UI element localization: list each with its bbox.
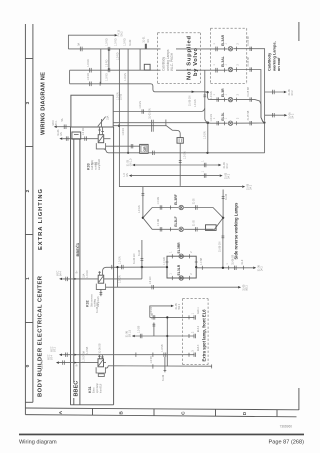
ticks near EL3R EL3L pins: [217, 97, 252, 125]
svg-text:Extra: Extra: [93, 387, 96, 393]
svg-text:1.0 RD: 1.0 RD: [105, 38, 108, 46]
row2 branch down to node A: [205, 70, 208, 122]
svg-text:1.0 GN: 1.0 GN: [164, 257, 166, 265]
K32 coil slash: [99, 276, 103, 282]
EL6 pin ticks at box entry: [194, 315, 196, 357]
wire B to EL6 pin2: [126, 325, 195, 338]
label BBEC: [71, 382, 79, 398]
wire node A to EL3L: [208, 122, 228, 124]
ticks on drop: [142, 193, 145, 195]
tick OR output: [153, 151, 155, 155]
svg-text:1: 1: [226, 64, 228, 66]
svg-text:Extra spot lamp, front EL6: Extra spot lamp, front EL6: [201, 309, 206, 362]
arrow left stub: [54, 125, 57, 127]
ticks wire D: [153, 364, 212, 368]
svg-text:1: 1: [170, 251, 172, 253]
footer rule: [19, 434, 304, 436]
svg-text:31-05: 31-05: [194, 198, 196, 205]
connector box on EL3LF return: [206, 225, 217, 231]
svg-text:1: 1: [191, 312, 194, 314]
fuse bar inside: [74, 134, 79, 136]
svg-text:K33: K33: [86, 163, 90, 170]
tick stub down: [164, 370, 167, 372]
svg-text:2: 2: [238, 93, 240, 95]
svg-text:1.0 SB: 1.0 SB: [86, 346, 89, 354]
svg-text:D: D: [242, 411, 248, 415]
svg-text:1: 1: [25, 277, 31, 280]
vertical link in EL6 feed: [166, 317, 168, 366]
wire branch down to K32 output: [141, 267, 143, 279]
OR gate box: [140, 144, 148, 153]
arrow mid EL3R feed: [192, 91, 195, 93]
svg-text:1.0 GN: 1.0 GN: [194, 99, 197, 107]
svg-text:D4 2: D4 2: [291, 90, 294, 96]
wire branch up connector: [141, 240, 143, 267]
svg-text:1: 1: [201, 160, 204, 162]
ring pin labels: [164, 251, 203, 275]
wire E K31 feed: [47, 354, 98, 365]
wire A to EL6 pin1: [150, 316, 195, 318]
svg-text:1.0 GN: 1.0 GN: [210, 91, 213, 99]
labels lamp pins lower: [214, 87, 250, 121]
svg-text:31-06: 31-06: [162, 374, 165, 381]
junction dots on vertical link: [166, 316, 168, 318]
wire into K33 left (coil feed): [62, 138, 98, 140]
wire K32 output to ring riser: [104, 278, 142, 280]
svg-text:D4 2: D4 2: [226, 163, 229, 169]
svg-text:31-04: 31-04: [138, 249, 141, 256]
svg-text:EXTRA LIGHTING: EXTRA LIGHTING: [38, 189, 44, 250]
svg-text:working: working: [94, 298, 97, 307]
wire left L joining row2-row3: [69, 70, 71, 84]
switch contact inside unit: [98, 117, 106, 127]
frame right edge fragments: [298, 22, 300, 41]
wire node A down to node B: [207, 123, 209, 153]
wire EL3AL return to right bus: [233, 70, 264, 123]
svg-text:1.0 GN: 1.0 GN: [150, 307, 153, 315]
svg-text:0: 0: [25, 364, 31, 367]
svg-text:31-05 SB: 31-05 SB: [248, 87, 250, 97]
svg-text:W2 2: W2 2: [246, 285, 249, 291]
svg-text:1.0 SB: 1.0 SB: [150, 356, 153, 364]
wire split to EL3RF row: [143, 208, 178, 218]
labels on row1 row2 wires: [78, 36, 150, 100]
ticks wire A: [153, 315, 189, 319]
svg-text:1: 1: [226, 43, 228, 45]
lamp EL3LR: [179, 276, 183, 280]
svg-text:31-03: 31-03: [120, 93, 123, 100]
relay K32: [98, 275, 104, 283]
svg-text:1.0 GN: 1.0 GN: [83, 354, 86, 362]
tick coil stub: [100, 293, 103, 295]
wire EL3R return: [233, 100, 264, 123]
ticks on side reverse rows: [160, 205, 197, 231]
svg-text:5A: 5A: [61, 118, 64, 121]
svg-text:working Lamps: working Lamps: [166, 49, 170, 71]
wire row3 jog down to EL3R feed line: [151, 84, 206, 92]
svg-text:2: 2: [238, 43, 240, 45]
svg-text:31-05 GN: 31-05 GN: [189, 95, 192, 106]
svg-text:Not Supplied: Not Supplied: [186, 36, 192, 80]
svg-text:W2 2: W2 2: [178, 303, 181, 309]
svg-text:1.0 RD: 1.0 RD: [123, 38, 126, 46]
text Not Supplied by Volvo: [186, 36, 199, 80]
ticks on merge-down: [222, 236, 225, 238]
svg-text:31-05: 31-05: [225, 193, 228, 200]
wire row2 (feed bus to EL3AL): [70, 69, 228, 71]
svg-text:BBEC: BBEC: [73, 381, 79, 397]
stub to 31-06 reference lower: [265, 112, 295, 119]
svg-text:1.0 GN: 1.0 GN: [118, 256, 121, 264]
svg-text:31-05: 31-05: [194, 220, 196, 227]
junction dot OR input: [127, 152, 129, 154]
svg-text:15A: 15A: [107, 115, 110, 120]
svg-text:B7 2: B7 2: [54, 346, 57, 352]
ticks on K33 out: [131, 144, 133, 148]
stub up from wire B connector: [153, 323, 155, 337]
strip pin arrow K32 feed: [75, 278, 77, 280]
connector ticks on row1: [80, 44, 224, 51]
svg-text:WLC- PKGH: WLC- PKGH: [170, 52, 174, 71]
svg-text:C: C: [181, 411, 187, 415]
junction dot rear feed: [141, 266, 143, 268]
wire row1 (feed bus to EL3AR): [68, 48, 227, 50]
svg-text:Side reverse: Side reverse: [90, 293, 93, 307]
svg-text:1: 1: [214, 64, 216, 66]
wire ring return to reference arrow: [196, 254, 263, 271]
K32 aux contact output: [106, 266, 249, 291]
svg-text:B4 1: B4 1: [55, 120, 58, 126]
svg-text:1.0 RD: 1.0 RD: [115, 38, 118, 46]
svg-text:31-05 SB: 31-05 SB: [248, 110, 250, 120]
svg-text:31-06: 31-06: [151, 313, 154, 320]
svg-text:31-06 SB: 31-06 SB: [248, 57, 250, 67]
connector box on row2: [144, 64, 150, 70]
frame coordinate row (bottom, rotated landscape left ruler): [25, 408, 299, 417]
svg-text:WIRING DIAGRAM NE: WIRING DIAGRAM NE: [40, 72, 46, 135]
stub from unit to EL3R branch: [113, 108, 205, 111]
wire K33 coil down to OR lower input: [104, 149, 140, 153]
svg-text:1: 1: [214, 117, 216, 119]
K32 top stubs: [99, 271, 101, 275]
pin labels roof lamps: [214, 43, 240, 66]
svg-text:EL3L: EL3L: [221, 112, 225, 120]
svg-text:1.0 GN: 1.0 GN: [158, 218, 160, 226]
svg-text:1.0 RD: 1.0 RD: [86, 270, 89, 278]
arrow K32 feed: [59, 278, 62, 280]
svg-text:B+: B+: [76, 363, 79, 367]
K33 bracket: [96, 143, 105, 149]
fuse block small box: [72, 132, 81, 139]
svg-text:B+: B+: [76, 270, 79, 274]
ticks stub111: [142, 109, 144, 113]
wire row3 (feed bus to node A): [70, 83, 152, 85]
svg-text:2: 2: [191, 273, 193, 275]
lamp EL3L: [228, 121, 232, 125]
wire right bus down to OR output corner: [264, 123, 266, 153]
svg-text:2: 2: [238, 117, 240, 119]
svg-text:1.0 RD: 1.0 RD: [87, 59, 90, 67]
svg-text:SB 1.5: SB 1.5: [129, 329, 132, 337]
ticks merge-up: [222, 197, 225, 199]
svg-text:Lamp ELS: Lamp ELS: [98, 296, 100, 307]
svg-text:D4 2: D4 2: [249, 184, 252, 190]
wire D from K31 output: [104, 362, 107, 364]
svg-text:1.0 GN: 1.0 GN: [183, 151, 186, 159]
svg-text:OR: OR: [143, 146, 147, 152]
svg-text:K32: K32: [86, 300, 90, 307]
svg-text:Cab/Body: Cab/Body: [92, 159, 94, 170]
svg-text:1.0 RD: 1.0 RD: [117, 52, 120, 60]
svg-text:31-06 SB: 31-06 SB: [232, 254, 235, 264]
svg-text:EL3R: EL3R: [221, 88, 225, 97]
svg-text:1.0 RD: 1.0 RD: [122, 128, 125, 136]
svg-text:1.0 GN: 1.0 GN: [210, 114, 213, 122]
svg-text:31-06 SB: 31-06 SB: [99, 343, 102, 353]
svg-text:EA 2: EA 2: [120, 31, 123, 37]
rear lamp ring: [167, 256, 196, 278]
lamp EL3R: [228, 97, 232, 101]
svg-text:Lamp ELR: Lamp ELR: [99, 159, 101, 170]
svg-text:1: 1: [214, 93, 216, 95]
svg-text:2: 2: [25, 189, 31, 192]
wire OR output to right riser: [148, 152, 265, 154]
wire vertical x119.4 row1 to bus corner, down to lower bus: [119, 49, 242, 187]
junction dot side-reverse right merge: [206, 228, 214, 230]
svg-text:1: 1: [201, 170, 204, 172]
svg-text:D4 2: D4 2: [291, 113, 294, 119]
svg-text:B4 4: B4 4: [60, 271, 63, 277]
svg-text:1: 1: [226, 93, 228, 95]
K33 top stubs: [100, 127, 103, 135]
svg-text:31-05 GN: 31-05 GN: [219, 241, 222, 252]
connector ticks on row2: [90, 68, 225, 73]
junction dots ring sides: [166, 266, 168, 268]
dashed box extra spot lamp EL6: [183, 299, 209, 365]
junction dot node A: [207, 122, 210, 125]
junction dot bus/vertical: [118, 125, 120, 127]
svg-text:1: 1: [170, 273, 172, 275]
svg-text:RD: RD: [147, 39, 150, 43]
wire feed arrow top-left (off-page reference): [68, 34, 117, 49]
wire drop from lower bus to side-reverse split: [142, 187, 144, 218]
svg-text:EL6-3: EL6-3: [198, 344, 200, 351]
wire vertical x100.8 row1-row3: [100, 49, 102, 84]
wire C to EL6 pin3: [51, 343, 195, 357]
bus mid (unit to node A): [113, 122, 208, 124]
svg-text:K31: K31: [88, 386, 92, 393]
BBEC1 connector rail: [74, 139, 80, 405]
relay K33 coil box: [98, 135, 104, 143]
svg-text:1.0 SB: 1.0 SB: [137, 325, 140, 333]
text Cab/Body working Lamps, on roof: [267, 41, 282, 72]
svg-text:A: A: [58, 410, 64, 414]
wire vertical x140.1 row1-row2: [139, 49, 141, 70]
arrow K33 feed left: [59, 137, 62, 139]
svg-text:B7 4: B7 4: [50, 354, 53, 360]
wire vertical x108.9 row1-row2: [108, 49, 110, 70]
svg-text:1.0 SB: 1.0 SB: [161, 344, 164, 352]
lamp EL3AL: [228, 67, 232, 71]
lamp EL3RF: [179, 205, 183, 209]
svg-text:EL6-1: EL6-1: [198, 307, 200, 314]
wire K33 out right to OR: [106, 145, 140, 147]
stub to 31-06 reference upper: [265, 89, 294, 96]
svg-text:1.0 RD: 1.0 RD: [87, 73, 90, 81]
svg-text:EL3LF: EL3LF: [174, 216, 178, 226]
svg-text:1.0 GN: 1.0 GN: [138, 205, 141, 213]
svg-text:1.0 SB: 1.0 SB: [201, 257, 203, 264]
svg-text:EL3RF: EL3RF: [174, 194, 178, 205]
dashed box WLC package (not supplied): [158, 33, 201, 84]
svg-text:BODY BUILDER ELECTRICAL CENTER: BODY BUILDER ELECTRICAL CENTER: [38, 275, 44, 397]
inline connector box: [177, 138, 183, 144]
wire node A up-branch to EL3R: [207, 91, 209, 93]
K33 coil slash: [99, 136, 103, 142]
junction dot node B on OR output: [206, 152, 208, 154]
wire stub up row1 connector 31-01: [145, 44, 147, 49]
svg-text:5A: 5A: [78, 42, 81, 45]
ticks left stub: [64, 125, 66, 130]
tall connector ticks across buses: [152, 120, 154, 132]
svg-text:working: working: [94, 161, 97, 170]
svg-text:spot lamp: spot lamp: [96, 382, 99, 393]
K31 lower terminal: [98, 374, 104, 377]
junction dot rear return: [222, 267, 224, 269]
svg-text:31-03 GN: 31-03 GN: [149, 108, 152, 119]
strip pin labels BBEC1: [76, 243, 79, 366]
reference stub 31-03 lower: [123, 170, 230, 179]
svg-text:EL3AR: EL3AR: [221, 34, 225, 46]
EL6 pin labels inside box: [198, 307, 200, 351]
svg-text:EL3AL: EL3AL: [221, 56, 225, 67]
wire left stub into unit: [57, 126, 71, 128]
svg-text:front EL6: front EL6: [99, 383, 102, 393]
stub down from wire C: [164, 357, 166, 372]
text Cab/Body working Lamps WLC-PKGH: [161, 36, 177, 72]
K31 bracket: [96, 367, 105, 373]
ticks on rear feed: [112, 265, 123, 269]
U loop feed for EL6 wire A: [150, 303, 181, 318]
svg-text:Cab/Body: Cab/Body: [161, 57, 165, 71]
K31 top stubs: [99, 355, 102, 359]
svg-text:31-02: 31-02: [129, 39, 132, 46]
svg-text:GN: GN: [60, 132, 63, 136]
ring pin ticks: [166, 254, 198, 280]
lamp EL3AR: [228, 47, 232, 51]
arrow end of lower bus: [242, 185, 245, 187]
frame coordinate column (left, rotated landscape top ruler): [25, 24, 33, 415]
svg-text:31-0: 31-0: [241, 259, 244, 264]
svg-text:1.0 RD: 1.0 RD: [105, 59, 108, 67]
ticks on row2 branch: [203, 95, 206, 97]
reference stub 31-03 upper: [126, 158, 229, 169]
dashed box roof lamps: [211, 28, 247, 83]
svg-text:31-01: 31-01: [142, 36, 145, 43]
svg-text:MCC B4: MCC B4: [41, 359, 44, 369]
K32 coil ground stub: [100, 289, 102, 296]
svg-text:1.0 RD: 1.0 RD: [82, 127, 85, 135]
svg-text:1: 1: [226, 263, 229, 265]
svg-text:1.0 GN: 1.0 GN: [203, 131, 206, 139]
svg-text:by Volvo: by Volvo: [193, 48, 199, 76]
bus2 (unit lower feed to inline box): [113, 126, 177, 131]
svg-text:B: B: [119, 411, 125, 415]
junction dot side-reverse left split: [142, 217, 144, 219]
wire EL3L return: [233, 122, 263, 124]
wire split to EL3LF row: [143, 218, 178, 230]
svg-text:GN: GN: [126, 173, 129, 177]
K31 coil slash: [99, 360, 103, 366]
svg-text:7366960: 7366960: [280, 425, 293, 429]
lamp EL3RR: [179, 254, 183, 258]
svg-text:31-03 GN: 31-03 GN: [133, 253, 136, 264]
svg-text:1: 1: [226, 117, 228, 119]
svg-text:1: 1: [214, 43, 216, 45]
wire EL3AR return to right bus: [233, 49, 264, 121]
K32 bracket: [96, 284, 105, 290]
wire EL3R feed end: [205, 91, 208, 93]
svg-text:1.0 GN: 1.0 GN: [149, 276, 152, 284]
svg-text:1.0 GN: 1.0 GN: [139, 101, 142, 109]
svg-text:1.0 GN: 1.0 GN: [124, 73, 127, 81]
relay K31: [98, 359, 104, 367]
ticks K33 feed: [66, 136, 86, 140]
ticks on roof lamp returns: [237, 47, 252, 72]
svg-text:2: 2: [191, 251, 193, 253]
svg-text:EL6-2: EL6-2: [198, 325, 200, 332]
wire K32 top pin to rear bus: [103, 267, 167, 275]
central distribution unit box: [71, 95, 113, 127]
svg-text:Wiring diagram: Wiring diagram: [19, 440, 57, 446]
svg-text:31-06 SB: 31-06 SB: [248, 36, 250, 46]
svg-text:2: 2: [191, 331, 194, 333]
tick branch-up: [141, 259, 144, 261]
wire vertical x128.1 row1 to OR input node: [127, 49, 129, 153]
labels side reverse rows: [158, 197, 195, 226]
junction dot right bus: [263, 121, 265, 123]
wire K32 feed (B+): [62, 278, 98, 280]
wires lamps to right merge: [184, 208, 223, 218]
svg-text:on roof: on roof: [276, 57, 281, 71]
svg-text:EL3RR: EL3RR: [177, 242, 181, 254]
svg-text:D4 2: D4 2: [261, 266, 264, 272]
svg-text:EL3LR: EL3LR: [177, 264, 181, 275]
BBEC cabinet box: [70, 127, 113, 405]
svg-text:2: 2: [238, 64, 240, 66]
svg-text:Page 87 (268): Page 87 (268): [269, 440, 305, 446]
svg-text:3: 3: [25, 101, 31, 104]
svg-text:1.0 RD: 1.0 RD: [105, 73, 108, 81]
connector ticks on row3: [90, 82, 100, 87]
svg-text:1.0 GN: 1.0 GN: [158, 197, 160, 205]
svg-text:D4 2: D4 2: [227, 173, 230, 179]
wire merge up to connector: [222, 190, 224, 218]
wire inline box down to lower bus: [179, 143, 181, 186]
svg-text:GN 1.0: GN 1.0: [129, 158, 132, 166]
lamp EL3LF: [179, 227, 183, 231]
svg-text:Side reverse working Lamps: Side reverse working Lamps: [234, 202, 239, 259]
svg-text:3: 3: [191, 350, 194, 352]
ticks K32 feed: [66, 277, 68, 281]
wire merge down to rear lamp bus: [222, 218, 224, 268]
